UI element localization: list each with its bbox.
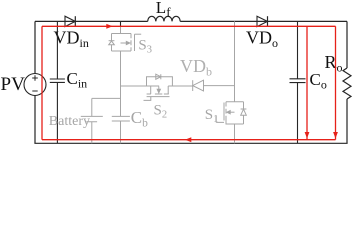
PV minus terminal xyxy=(32,90,37,92)
svg-text:S3: S3 xyxy=(138,38,152,56)
switch S1 branch wire (gray) xyxy=(234,21,236,143)
red current loop left xyxy=(41,26,43,139)
diode VDin xyxy=(65,16,75,26)
red arrow left (bottom rail) xyxy=(185,137,191,142)
capacitor Cin plates xyxy=(50,79,65,82)
red current loop bottom xyxy=(42,139,336,141)
svg-text:VDo: VDo xyxy=(246,27,278,50)
svg-text:Co: Co xyxy=(310,70,327,92)
svg-text:S1: S1 xyxy=(205,107,219,125)
red branch through Co xyxy=(306,26,308,139)
red arrow right (top rail) xyxy=(106,24,112,29)
PV plus terminal xyxy=(32,75,38,81)
svg-text:Ro: Ro xyxy=(325,52,343,75)
diode VDo xyxy=(257,16,268,26)
svg-text:PV: PV xyxy=(1,74,26,95)
wire right edge with load xyxy=(346,21,348,68)
red current loop top xyxy=(42,25,336,27)
inductor Lf xyxy=(148,16,180,21)
diode VDb xyxy=(193,80,204,91)
PV source circle xyxy=(24,74,46,96)
svg-text:Cb: Cb xyxy=(131,108,148,129)
wire VDb to S1 node xyxy=(204,85,235,87)
wire left edge (PV branch) xyxy=(34,21,36,143)
svg-text:S2: S2 xyxy=(154,103,168,121)
red arrow down (Co branch) xyxy=(305,132,310,138)
switch S2 horizontal wire xyxy=(121,85,193,87)
wire top rail xyxy=(35,20,347,22)
red current loop right xyxy=(335,26,337,139)
transistor S1 body xyxy=(216,102,246,124)
transistor S3 body xyxy=(109,34,142,52)
wire bottom rail xyxy=(34,142,347,144)
svg-text:Lf: Lf xyxy=(156,0,171,19)
capacitor Co branch wire xyxy=(297,21,299,143)
capacitor Cb plates xyxy=(112,116,130,121)
svg-text:Battery: Battery xyxy=(49,114,90,129)
battery lead wire xyxy=(92,98,121,143)
svg-text:VDin: VDin xyxy=(54,27,89,50)
svg-text:VDb: VDb xyxy=(180,56,212,79)
red arrow down (Ro branch) xyxy=(333,132,338,138)
switch S3 branch wire (gray) xyxy=(120,27,122,143)
transistor S2 body xyxy=(144,74,173,100)
svg-text:Cin: Cin xyxy=(67,69,88,91)
resistor Ro zigzag xyxy=(343,68,351,99)
capacitor Cin branch wire xyxy=(56,21,58,143)
battery plates xyxy=(81,116,103,121)
capacitor Co plates xyxy=(290,79,306,83)
switch S3 drain stub (black) xyxy=(120,21,122,27)
